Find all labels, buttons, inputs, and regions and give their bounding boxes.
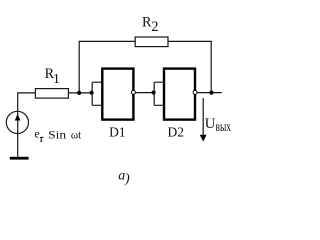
logic gate D2 <box>164 69 195 120</box>
svg-text:1: 1 <box>53 72 60 87</box>
wire source top vertical <box>17 92 19 112</box>
arrow Uvyx down <box>202 98 204 135</box>
wire D2 output <box>197 92 222 94</box>
svg-text:D1: D1 <box>109 124 126 139</box>
node output junction <box>209 91 213 95</box>
wire right feedback vertical <box>210 41 212 93</box>
svg-text:e: e <box>34 126 39 140</box>
wire left feedback vertical <box>78 41 80 93</box>
svg-text:D2: D2 <box>168 124 185 139</box>
arrow source up <box>15 114 21 121</box>
bubble D2 output <box>193 90 197 94</box>
svg-text:вых: вых <box>216 119 232 134</box>
bubble D1 output <box>131 90 135 94</box>
source G circle <box>6 111 28 133</box>
svg-text:U: U <box>205 116 216 132</box>
wire through source <box>17 112 19 157</box>
resistor R2 <box>135 37 168 47</box>
wire D1 to D2 <box>136 92 155 94</box>
svg-text:): ) <box>124 171 130 186</box>
svg-text:Sin: Sin <box>48 127 66 141</box>
logic gate D1 <box>102 69 133 120</box>
node D2 input junction <box>152 90 156 94</box>
wire source to R1 <box>18 92 36 94</box>
wire top feedback horizontal <box>79 40 211 42</box>
wire D2 input tie bracket <box>154 82 164 105</box>
ground <box>10 157 29 160</box>
wire R1 to D1 input <box>68 92 92 94</box>
wire D1 input tie bracket <box>92 82 103 105</box>
svg-text:2: 2 <box>151 19 158 35</box>
resistor R1 <box>35 89 68 99</box>
svg-text:ωt: ωt <box>71 127 82 141</box>
node D1 input junction <box>90 91 94 95</box>
node feedback junction <box>77 91 81 95</box>
